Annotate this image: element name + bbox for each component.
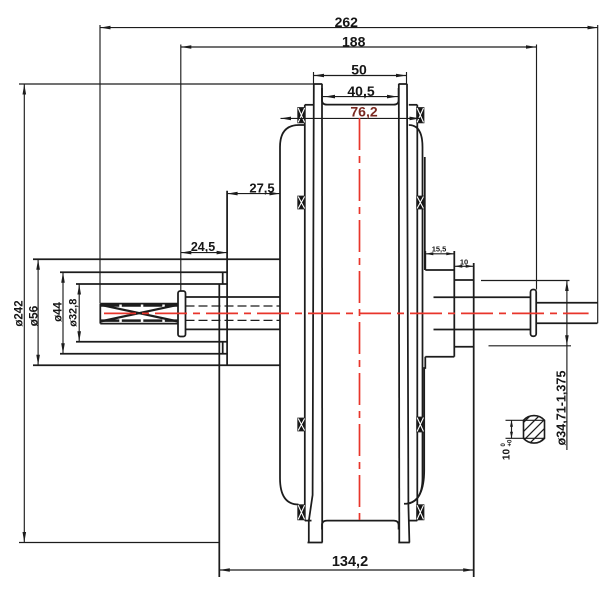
svg-text:10: 10 <box>460 258 468 267</box>
bearing marker top-right <box>417 108 423 122</box>
motor shell right outline <box>404 125 423 504</box>
label 10±0 flats <box>501 439 514 460</box>
dim 15,5 <box>425 252 454 255</box>
svg-text:134,2: 134,2 <box>332 554 368 570</box>
bearing marker bottom-left <box>298 505 304 519</box>
svg-text:50: 50 <box>351 62 367 78</box>
axle left shaft <box>186 297 281 329</box>
dim 134,2 <box>219 568 473 572</box>
svg-text:ø44: ø44 <box>52 301 64 321</box>
svg-text:76,2: 76,2 <box>350 104 377 120</box>
bearing marker top-left <box>298 108 304 122</box>
axle section detail circle <box>510 406 563 455</box>
svg-text:40,5: 40,5 <box>347 83 374 99</box>
axle right end <box>536 303 597 323</box>
red centerline vertical <box>359 118 361 520</box>
bearing marker lower-right <box>417 418 423 432</box>
dim 10 flats <box>506 420 545 438</box>
dim ø34,71-1,375 <box>481 281 571 451</box>
axle left keyway section <box>100 304 178 324</box>
svg-text:ø34,71-1,375: ø34,71-1,375 <box>554 371 568 446</box>
dim 24,5 <box>181 251 227 255</box>
svg-text:+0: +0 <box>508 439 514 447</box>
bearing marker bottom-right <box>417 505 423 519</box>
svg-text:15,5: 15,5 <box>432 245 447 254</box>
right hub collar 10 <box>454 263 473 577</box>
svg-text:ø242: ø242 <box>13 300 25 326</box>
left side cover line <box>305 105 314 521</box>
dim 76,2 <box>281 117 421 121</box>
axle right shaft <box>434 297 531 329</box>
dim 262 <box>100 25 598 323</box>
svg-text:ø56: ø56 <box>26 305 40 326</box>
bearing marker lower-left <box>298 419 304 431</box>
right hub boss 15.5 <box>425 251 454 357</box>
dim ø32,8 <box>77 284 81 342</box>
left hub step ø44 <box>60 272 227 354</box>
bearing marker upper-left <box>298 197 304 209</box>
left spoke flange <box>308 84 323 543</box>
svg-text:188: 188 <box>342 33 366 49</box>
dim 50 <box>314 72 407 84</box>
rim channel bottom <box>322 521 399 530</box>
axle left hidden thread dashes <box>186 306 281 320</box>
dim 27,5 <box>227 192 280 196</box>
svg-text:24,5: 24,5 <box>191 240 215 254</box>
left hub stub ø32.8 <box>76 284 227 577</box>
dim 10 right <box>454 265 473 268</box>
dim ø242 <box>19 84 314 543</box>
svg-text:262: 262 <box>335 14 359 30</box>
svg-text:ø32,8: ø32,8 <box>68 299 80 327</box>
right boss base <box>408 157 425 504</box>
red centerline horizontal <box>104 312 589 314</box>
rim channel top <box>322 88 399 105</box>
dim ø56 <box>36 259 40 365</box>
axle right washer <box>531 290 537 337</box>
dim 188 <box>181 45 537 292</box>
right side cover line <box>409 105 418 521</box>
bearing marker upper-right <box>417 197 423 209</box>
dim 40,5 <box>323 95 399 99</box>
axle left washer <box>178 291 186 337</box>
left hub boss ø56 <box>33 191 280 365</box>
dim ø44 <box>61 272 65 354</box>
right spoke flange <box>398 84 410 543</box>
motor shell left outline <box>280 125 305 505</box>
svg-text:27,5: 27,5 <box>249 181 274 196</box>
svg-text:10: 10 <box>502 449 513 461</box>
